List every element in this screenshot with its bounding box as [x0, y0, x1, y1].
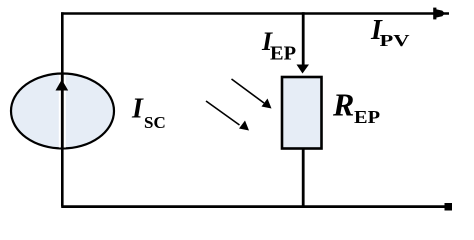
terminal square at bottom-right output node: [445, 203, 453, 211]
illumination arrow 2 (lower): [206, 101, 249, 131]
label I_EP: [261, 27, 296, 65]
label I_SC: [131, 94, 166, 133]
svg-text:R: R: [332, 87, 354, 123]
svg-text:PV: PV: [380, 31, 411, 50]
wire bottom (return node): [61, 205, 446, 208]
wire branch bottom (resistor to return): [302, 149, 305, 207]
illumination arrow 1 (upper): [232, 79, 272, 109]
current source ISC (ellipse with upward arrow): [11, 74, 114, 149]
arrow IPV current direction on top wire: [433, 8, 445, 20]
svg-text:SC: SC: [144, 113, 166, 132]
label R_EP: [332, 87, 380, 128]
resistor REP: [282, 77, 322, 149]
wire left (x=62, top to bottom): [61, 12, 64, 206]
label I_PV: [370, 15, 410, 50]
svg-text:I: I: [131, 94, 144, 125]
wire top (node from source to output): [61, 12, 449, 15]
svg-text:EP: EP: [354, 107, 380, 127]
svg-text:EP: EP: [270, 43, 296, 65]
wire branch top with IEP arrow into resistor: [297, 12, 310, 73]
